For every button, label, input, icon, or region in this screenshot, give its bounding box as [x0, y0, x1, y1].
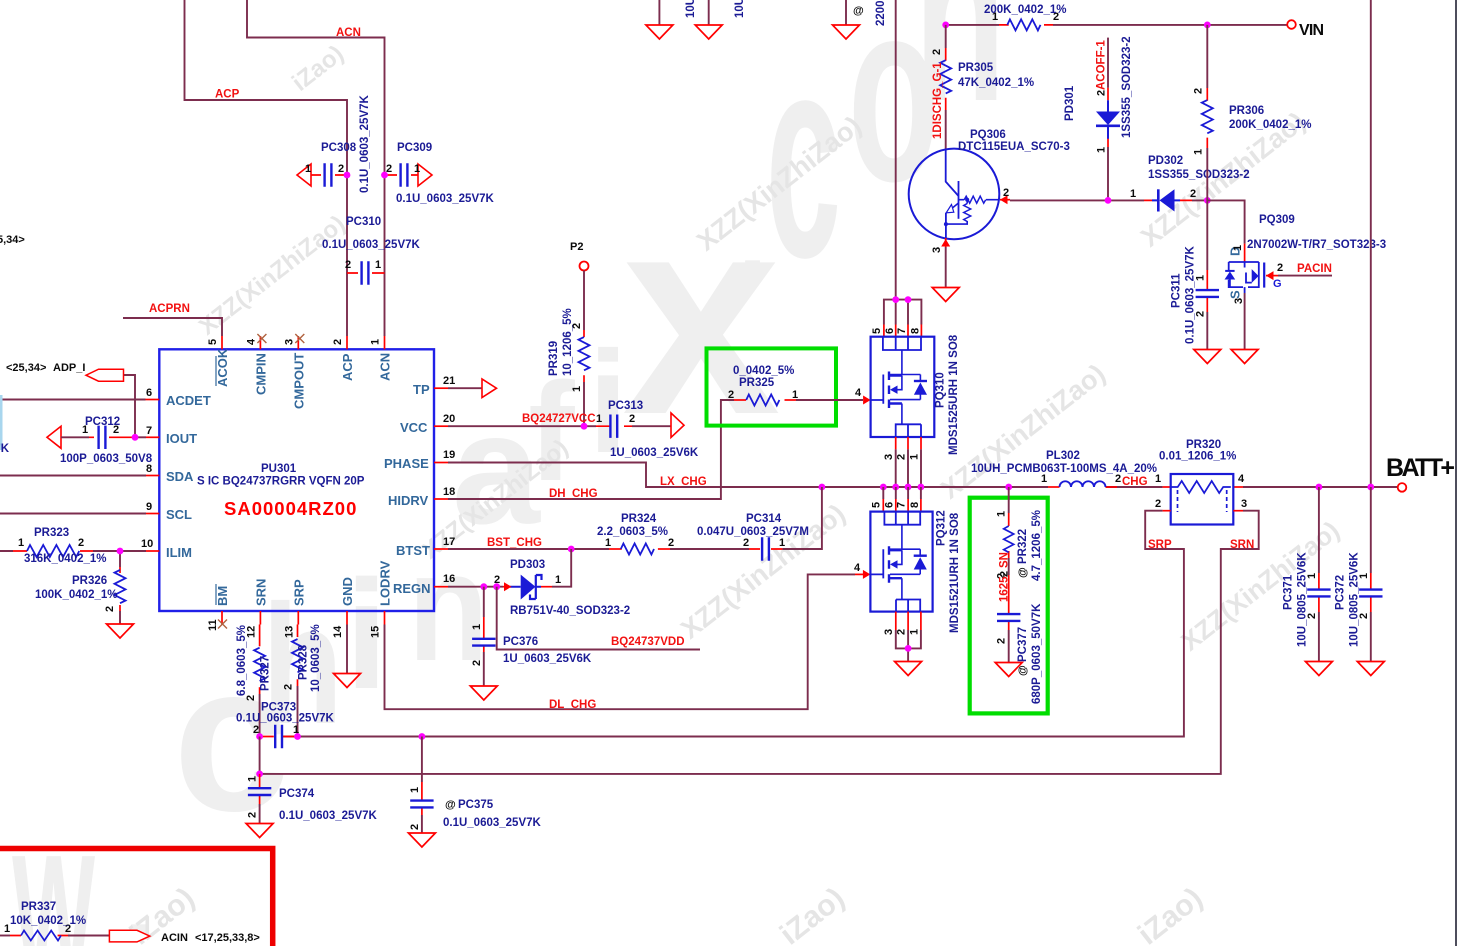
svg-text:BTST: BTST — [396, 543, 430, 558]
svg-text:2N7002W-T/R7_SOT323-3: 2N7002W-T/R7_SOT323-3 — [1247, 239, 1386, 251]
terminal VIN — [1287, 20, 1296, 29]
svg-text:PC375: PC375 — [458, 799, 494, 811]
ground cap3 — [833, 25, 860, 39]
pin 14 GND — [346, 611, 348, 625]
svg-text:PD303: PD303 — [510, 559, 545, 571]
capacitor 2200 (cut) — [846, 0, 887, 26]
ground PC374 — [246, 824, 273, 838]
svg-text:SCL: SCL — [166, 507, 192, 522]
svg-text:PC372: PC372 — [1335, 575, 1347, 610]
svg-text:15: 15 — [370, 626, 382, 638]
svg-text:RB751V-40_SOD323-2: RB751V-40_SOD323-2 — [510, 605, 630, 617]
wire PQ306 emitter to ground — [945, 247, 947, 287]
wire SRP rail — [260, 511, 1184, 737]
svg-text:'K: 'K — [0, 443, 10, 455]
svg-text:2: 2 — [1096, 90, 1108, 96]
svg-text:3: 3 — [883, 629, 895, 635]
svg-text:0.1U_0603_25V7K: 0.1U_0603_25V7K — [1185, 245, 1197, 344]
svg-text:SRN: SRN — [253, 579, 268, 606]
svg-text:PQ309: PQ309 — [1259, 214, 1295, 226]
terminal BATT+ — [1398, 483, 1407, 492]
capacitor PC375 — [409, 737, 542, 831]
svg-text:1: 1 — [909, 629, 921, 635]
port ACIN tag — [109, 930, 149, 942]
svg-text:PC312: PC312 — [85, 416, 120, 428]
pin 5 ACOK — [221, 336, 223, 349]
svg-text:100K_0402_1%: 100K_0402_1% — [35, 589, 118, 601]
svg-text:PR328: PR328 — [298, 644, 310, 680]
capacitor PC308 — [297, 94, 371, 193]
wire ACP vertical+horizontal — [185, 0, 348, 336]
pin 7 IOUT — [146, 436, 159, 438]
svg-text:2: 2 — [345, 259, 351, 271]
svg-text:2: 2 — [668, 537, 674, 549]
transistor PQ306 DTC115EUA — [909, 129, 1070, 253]
svg-text:2: 2 — [629, 413, 635, 425]
svg-text:BST_CHG: BST_CHG — [487, 537, 542, 549]
svg-text:@: @ — [1017, 567, 1029, 578]
svg-text:PC308: PC308 — [321, 142, 357, 154]
svg-text:0.01_1206_1%: 0.01_1206_1% — [1159, 451, 1236, 463]
svg-text:LODRV: LODRV — [378, 560, 393, 606]
wire PR306 to node — [1206, 148, 1208, 200]
svg-text:TP: TP — [413, 382, 430, 397]
node PC371 junction — [1316, 484, 1323, 491]
pin 2 ACP — [346, 336, 348, 349]
svg-text:10U_0805_25V6K: 10U_0805_25V6K — [1297, 552, 1309, 647]
svg-text:SDA: SDA — [166, 469, 194, 484]
pin 1 ACN — [384, 336, 386, 349]
wire PR325 to PQ310 gate — [796, 399, 863, 401]
pin 9 SCL — [146, 513, 159, 515]
svg-text:PR323: PR323 — [34, 527, 69, 539]
wire TP net — [448, 387, 482, 389]
node VIN-PR305 junction — [942, 22, 949, 29]
pin 8 SDA — [146, 475, 159, 477]
wire ACN vertical+horizontal — [247, 0, 385, 336]
capacitor PC310 — [322, 216, 421, 285]
svg-text:47K_0402_1%: 47K_0402_1% — [958, 77, 1034, 89]
ground PC372 — [1357, 662, 1384, 676]
svg-text:2: 2 — [896, 454, 908, 460]
svg-text:P2: P2 — [570, 241, 583, 253]
svg-text:316K_0402_1%: 316K_0402_1% — [24, 553, 107, 565]
capacitor 10U (cut) 2 — [709, 0, 746, 25]
svg-text:2: 2 — [1190, 188, 1196, 200]
wire PR305 to PQ306 — [945, 110, 947, 150]
svg-text:PR322: PR322 — [1017, 529, 1029, 564]
svg-text:10U_0805_25V6K: 10U_0805_25V6K — [1349, 552, 1361, 647]
capacitor PC374 — [247, 774, 378, 822]
ground PQ309 — [1231, 350, 1258, 364]
svg-text:6.8_0603_5%: 6.8_0603_5% — [236, 625, 248, 696]
svg-text:200K_0402_1%: 200K_0402_1% — [1229, 119, 1312, 131]
ground PC377 — [995, 663, 1022, 677]
capacitor 10U (cut) 1 — [659, 0, 697, 25]
svg-text:1U_0603_25V6K: 1U_0603_25V6K — [610, 447, 699, 459]
svg-text:8: 8 — [146, 463, 152, 475]
transistor PQ312 MDS1521URH — [870, 487, 961, 635]
svg-text:3: 3 — [931, 247, 943, 253]
ground PR326 — [107, 624, 134, 638]
svg-text:7: 7 — [146, 425, 152, 437]
svg-text:DL_CHG: DL_CHG — [549, 699, 596, 711]
diode PD302 1SS355 — [1130, 155, 1250, 212]
svg-text:S IC BQ24737RGRR VQFN 20P: S IC BQ24737RGRR VQFN 20P — [197, 476, 365, 488]
svg-text:1: 1 — [471, 624, 483, 630]
resistor PR305 — [931, 25, 1034, 110]
svg-text:1: 1 — [370, 339, 382, 345]
svg-text:DH_CHG: DH_CHG — [549, 488, 598, 500]
highlight box PR325 — [707, 348, 837, 425]
svg-text:ILIM: ILIM — [166, 545, 192, 560]
wire PR319 to VCC — [583, 382, 585, 426]
svg-text:CMPOUT: CMPOUT — [291, 353, 306, 409]
svg-text:6: 6 — [146, 387, 152, 399]
svg-text:CHG: CHG — [1122, 476, 1148, 488]
svg-text:SA00004RZ00: SA00004RZ00 — [224, 498, 357, 519]
wire ACPRN to pin5 — [123, 318, 222, 336]
node PC374 junction — [256, 771, 263, 778]
wire BATT+ rail — [1243, 486, 1398, 488]
pin 13 SRP — [297, 611, 299, 625]
svg-text:7: 7 — [895, 502, 907, 508]
capacitor PC376 — [471, 587, 592, 666]
svg-text:10: 10 — [141, 538, 153, 550]
svg-text:PR327: PR327 — [260, 656, 272, 691]
svg-text:1: 1 — [375, 259, 381, 271]
svg-text:200K_0402_1%: 200K_0402_1% — [984, 4, 1067, 16]
svg-text:0.1U_0603_25V7K: 0.1U_0603_25V7K — [396, 193, 495, 205]
svg-text:HIDRV: HIDRV — [388, 493, 429, 508]
svg-text:PR306: PR306 — [1229, 105, 1264, 117]
wire PQ306 pin2 to PD302 to PR306 node — [1010, 199, 1207, 201]
inductor PL302 — [971, 450, 1157, 487]
svg-text:PC313: PC313 — [608, 400, 643, 412]
resistor PR327 — [236, 625, 272, 702]
svg-text:2: 2 — [247, 812, 259, 818]
resistor PR304 200K on VIN rail — [984, 4, 1067, 30]
resistor PR319 — [548, 271, 590, 393]
svg-text:ADP_I: ADP_I — [53, 362, 85, 374]
capacitor PC312 — [47, 416, 153, 465]
svg-text:2: 2 — [1003, 187, 1009, 199]
svg-text:0.1U_0603_25V7K: 0.1U_0603_25V7K — [236, 713, 335, 725]
node ILIM junction — [117, 548, 124, 555]
svg-text:680P_0603_50V7K: 680P_0603_50V7K — [1031, 603, 1043, 704]
wire PR337 to ACIN tag — [68, 935, 109, 937]
svg-text:2: 2 — [338, 163, 344, 175]
svg-text:100P_0603_50V8: 100P_0603_50V8 — [60, 453, 153, 465]
wire SDA pin8 from left edge — [0, 475, 146, 477]
node PQ312 source junction — [905, 645, 912, 652]
svg-text:PC309: PC309 — [397, 142, 432, 154]
svg-text:6: 6 — [884, 328, 896, 334]
svg-text:2: 2 — [245, 695, 257, 701]
resistor PR325 — [728, 365, 798, 406]
svg-text:10_0603_5%: 10_0603_5% — [310, 624, 322, 692]
wire REGN pin16 to diode — [448, 586, 503, 588]
svg-text:ACOFF-1: ACOFF-1 — [1096, 40, 1108, 90]
svg-text:4: 4 — [245, 338, 257, 345]
svg-text:1: 1 — [305, 163, 311, 175]
svg-text:11: 11 — [207, 619, 219, 631]
wire VCC net — [448, 425, 671, 427]
op-amp/IC body PU301 — [159, 349, 434, 611]
svg-text:PQ310: PQ310 — [935, 372, 947, 408]
svg-text:0.1U_0603_25V7K: 0.1U_0603_25V7K — [279, 810, 378, 822]
svg-text:14: 14 — [332, 625, 344, 638]
svg-text:1SS355_SOD323-2: 1SS355_SOD323-2 — [1148, 169, 1250, 181]
svg-text:1DISCHG_G-1: 1DISCHG_G-1 — [932, 62, 944, 139]
svg-text:PQ306: PQ306 — [970, 129, 1006, 141]
svg-text:1: 1 — [779, 537, 785, 549]
svg-text:2: 2 — [996, 638, 1008, 644]
svg-text:16: 16 — [443, 573, 455, 585]
svg-text:S: S — [1228, 290, 1243, 299]
sheet border red thick — [0, 849, 273, 946]
svg-text:PC310: PC310 — [346, 216, 381, 228]
resistor PR320 current sense — [1155, 439, 1247, 525]
svg-text:PQ312: PQ312 — [936, 510, 948, 546]
wire LX rail PHASE to PR320 — [448, 463, 1163, 488]
node VCC junction — [581, 423, 588, 430]
svg-text:17: 17 — [443, 536, 455, 548]
wire PC371 to ground — [1318, 612, 1320, 661]
svg-text:SRN: SRN — [1230, 539, 1254, 551]
wire PC375 to ground — [421, 815, 423, 833]
svg-text:PR326: PR326 — [72, 575, 107, 587]
svg-text:1: 1 — [996, 511, 1008, 517]
node REGN junction PC376 — [480, 583, 487, 590]
node PC373 pin1 junction — [294, 733, 301, 740]
wire PQ310 top bus — [884, 300, 922, 325]
pin 3 of PQ306 — [945, 238, 947, 247]
svg-text:0_0402_5%: 0_0402_5% — [733, 365, 794, 377]
wire BQ24737VDD net — [497, 587, 700, 650]
wire PQ312 sources bus — [896, 630, 921, 661]
pin 21 TP — [434, 387, 448, 389]
svg-text:10U: 10U — [685, 0, 697, 18]
svg-text:5: 5 — [870, 502, 882, 508]
svg-text:G: G — [1273, 278, 1282, 290]
svg-text:REGN: REGN — [393, 581, 431, 596]
capacitor PC371 — [1283, 487, 1331, 647]
svg-text:ACP: ACP — [340, 353, 355, 381]
resistor PR326 — [35, 567, 126, 612]
wire PQ309 source to ground — [1244, 293, 1246, 349]
svg-text:0.1U_0603_25V7K: 0.1U_0603_25V7K — [443, 817, 542, 829]
svg-text:PD301: PD301 — [1064, 85, 1076, 121]
wire BST_CHG pin17 — [448, 487, 822, 549]
transistor PQ309 2N7002W — [1225, 214, 1387, 304]
svg-text:CMPIN: CMPIN — [253, 353, 268, 395]
ground pin14 — [334, 674, 361, 688]
pin 10 ILIM — [146, 550, 159, 552]
svg-text:ACPRN: ACPRN — [149, 303, 190, 315]
ground PC311 — [1194, 350, 1221, 364]
svg-text:1: 1 — [555, 574, 561, 586]
svg-text:2: 2 — [1192, 88, 1204, 94]
wire PQ310 drain feed from top — [895, 0, 897, 300]
node BST-PD303 junction — [568, 546, 575, 553]
svg-text:2: 2 — [471, 660, 483, 666]
svg-text:PC376: PC376 — [503, 636, 538, 648]
capacitor PC309 — [385, 142, 495, 205]
svg-text:4.7_1206_5%: 4.7_1206_5% — [1031, 510, 1043, 581]
svg-text:1: 1 — [1232, 245, 1244, 251]
svg-text:PR320: PR320 — [1186, 439, 1221, 451]
svg-text:ACP: ACP — [215, 89, 240, 101]
pin4 arrow PQ312 — [863, 570, 871, 579]
node ADP_I-IOUT junction — [132, 434, 139, 441]
svg-text:2: 2 — [409, 824, 421, 830]
ground PQ306 — [932, 288, 959, 302]
pin 16 REGN — [434, 586, 448, 588]
svg-text:IOUT: IOUT — [166, 431, 197, 446]
svg-text:PR319: PR319 — [548, 341, 560, 376]
svg-text:PR305: PR305 — [958, 62, 994, 74]
svg-text:2: 2 — [104, 606, 116, 612]
svg-text:2: 2 — [78, 537, 84, 549]
resistor PR337 — [0, 901, 86, 941]
svg-text:LX_CHG: LX_CHG — [660, 476, 707, 488]
highlight box PR322/PC377 — [970, 498, 1048, 714]
pin 3 CMPOUT (nc) — [297, 336, 299, 349]
capacitor PC314 — [697, 513, 809, 561]
svg-text:2200: 2200 — [875, 0, 887, 26]
capacitor PC311 — [1171, 200, 1220, 344]
wire BATT+ riser — [1370, 0, 1372, 487]
svg-text:5,34>: 5,34> — [0, 234, 25, 246]
svg-text:1: 1 — [18, 537, 24, 549]
wire PC311 to ground — [1206, 312, 1208, 349]
pin 19 PHASE — [434, 462, 448, 464]
svg-text:SRP: SRP — [291, 579, 306, 606]
pin 11 BM (nc) — [221, 611, 223, 625]
svg-text:20: 20 — [443, 413, 455, 425]
diode PD301 1SS355 — [1064, 36, 1133, 153]
svg-text:9: 9 — [146, 501, 152, 513]
svg-text:8: 8 — [910, 328, 922, 334]
svg-text:PACIN: PACIN — [1297, 263, 1332, 275]
svg-text:2: 2 — [283, 684, 295, 690]
svg-text:PL302: PL302 — [1046, 450, 1080, 462]
wire ADP_I to IOUT — [124, 375, 136, 437]
svg-text:1: 1 — [414, 163, 420, 175]
svg-text:10K_0402_1%: 10K_0402_1% — [10, 915, 86, 927]
diode PD303 RB751V-40 schottky — [494, 559, 630, 617]
svg-text:PR324: PR324 — [621, 513, 657, 525]
svg-text:ACN: ACN — [378, 353, 393, 381]
svg-text:2: 2 — [895, 629, 907, 635]
wire PC376 to ground — [483, 652, 485, 686]
svg-text:PC371: PC371 — [1283, 574, 1295, 610]
svg-text:10UH_PCMB063T-100MS_4A_20%: 10UH_PCMB063T-100MS_4A_20% — [971, 463, 1157, 475]
ground PC375 — [408, 833, 435, 847]
node PD301 junction — [1105, 197, 1112, 204]
wire SRN rail — [260, 511, 1259, 774]
svg-text:2: 2 — [332, 339, 344, 345]
pin 6 ACDET — [146, 399, 160, 401]
svg-text:5: 5 — [871, 328, 883, 334]
svg-text:ACOK: ACOK — [215, 348, 230, 387]
resistor PR324 — [597, 513, 674, 555]
pin 12 SRN — [259, 611, 261, 625]
ground PC376 — [470, 686, 497, 700]
svg-text:BM: BM — [215, 586, 230, 606]
svg-text:SRP: SRP — [1148, 539, 1172, 551]
resistor PR322 — [996, 487, 1044, 581]
capacitor PC377 — [996, 558, 1044, 704]
svg-text:BATT+: BATT+ — [1386, 454, 1455, 482]
wire SCL pin9 from left edge — [0, 513, 146, 515]
node ACP-PC308 junction — [344, 172, 351, 179]
pin 18 HIDRV — [434, 498, 448, 500]
svg-text:0.1U_0603_25V7K: 0.1U_0603_25V7K — [322, 239, 421, 251]
node PD302-PR306 junction — [1204, 197, 1211, 204]
wire DH_CHG pin18 to PR325 — [448, 400, 734, 499]
svg-text:3: 3 — [883, 454, 895, 460]
cyan edge strip — [0, 395, 3, 450]
wire PC374 to ground — [259, 804, 261, 823]
node PQ310 feed junctions — [892, 296, 899, 303]
svg-text:PHASE: PHASE — [384, 456, 429, 471]
svg-text:7: 7 — [896, 328, 908, 334]
pin 15 LODRV — [384, 611, 386, 625]
svg-text:1: 1 — [1130, 188, 1136, 200]
wire PC377 to ground — [1008, 630, 1010, 662]
svg-text:13: 13 — [283, 626, 295, 638]
svg-text:4: 4 — [854, 562, 861, 574]
wire IOUT node to pin7 — [135, 436, 146, 438]
svg-text:DTC115EUA_SC70-3: DTC115EUA_SC70-3 — [958, 141, 1070, 153]
wire PR327 to SRP rail — [259, 694, 261, 737]
svg-text:4: 4 — [1238, 473, 1245, 485]
svg-text:PC311: PC311 — [1171, 273, 1183, 308]
ground PQ312 — [895, 662, 922, 676]
wire DL_CHG LODRV to PQ312 gate — [385, 574, 856, 709]
svg-text:0.047U_0603_25V7M: 0.047U_0603_25V7M — [697, 526, 809, 538]
svg-text:1: 1 — [1192, 149, 1204, 155]
svg-text:ACIN: ACIN — [161, 932, 188, 944]
svg-text:1: 1 — [605, 537, 611, 549]
svg-text:3: 3 — [283, 339, 295, 345]
capacitor PC372 — [1335, 487, 1383, 647]
svg-text:2: 2 — [728, 389, 734, 401]
ground cap2 — [695, 25, 722, 39]
svg-text:4: 4 — [855, 387, 862, 399]
svg-text:2: 2 — [931, 49, 943, 55]
svg-text:ACDET: ACDET — [166, 393, 211, 408]
pin 4 arrow PQ310 — [863, 396, 871, 405]
svg-text:BQ24737VDD: BQ24737VDD — [611, 636, 685, 648]
svg-text:PD302: PD302 — [1148, 155, 1183, 167]
svg-text:PU301: PU301 — [261, 463, 297, 475]
wire ACDET pin6 from left edge — [0, 399, 146, 401]
svg-text:21: 21 — [443, 375, 455, 387]
svg-text:1: 1 — [1155, 473, 1161, 485]
ground PC371 — [1305, 662, 1332, 676]
node PC373 pin2 junction — [256, 733, 263, 740]
wire PR326 branch — [119, 551, 121, 624]
capacitor PC313 — [596, 400, 699, 459]
wire ILIM net PR323 to pin10 — [0, 550, 146, 552]
wire PQ310 sources to LX rail — [896, 449, 921, 487]
svg-text:1: 1 — [571, 386, 583, 392]
resistor PR306 — [1192, 25, 1311, 155]
resistor PR323 — [13, 527, 107, 565]
